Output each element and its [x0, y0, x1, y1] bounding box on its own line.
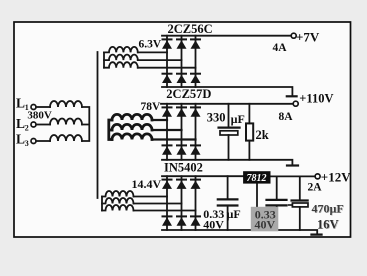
capacitor C1 330uF bottom lead	[228, 135, 230, 160]
capacitor C3 0.33uF plates	[267, 200, 287, 206]
wire primary common bus	[82, 107, 89, 141]
bridge 1 bottom bus	[162, 87, 292, 95]
wire 78V phase b to bridge	[152, 129, 182, 131]
diodes: bridge 1 (2CZ56C)	[162, 39, 202, 225]
svg-text:IN5402: IN5402	[164, 160, 203, 174]
diode D7	[162, 107, 173, 116]
svg-text:2k: 2k	[256, 128, 269, 142]
wire 6.3V phase a to bridge	[138, 51, 167, 53]
capacitor C1 330uF bottom plate	[220, 131, 238, 135]
diode D12	[190, 145, 201, 154]
transformer secondary 78V winding c	[112, 134, 152, 140]
diode D6	[190, 74, 201, 83]
regulator U1 7812 ground pin	[256, 184, 258, 230]
capacitor C4 470uF top lead	[299, 176, 301, 199]
wire 14.4V phase b to bridge	[134, 203, 182, 205]
bridge 2 column 3	[195, 104, 197, 160]
transformer secondary 6.3V winding c	[104, 62, 138, 68]
transformer T1 primary winding 1	[50, 101, 82, 107]
svg-text:4A: 4A	[273, 42, 288, 54]
svg-text:6.3V: 6.3V	[139, 38, 162, 50]
node +12V terminal	[315, 174, 320, 179]
wire 6.3V bus	[103, 52, 105, 67]
transformer secondary 6.3V winding b	[104, 55, 138, 61]
transformer secondary 14.4V winding b	[102, 198, 134, 204]
resistor R1 2k top lead	[248, 104, 250, 124]
svg-text:L: L	[16, 132, 25, 147]
node L2 terminal	[31, 122, 36, 127]
capacitor C2 0.33uF plates	[218, 199, 238, 205]
ground bar	[312, 233, 322, 235]
bridge 1 column 1	[166, 36, 168, 87]
wire 14.4V phase c to bridge	[134, 210, 196, 212]
diode D11	[176, 145, 187, 154]
bridge 3 column 1	[166, 176, 168, 230]
svg-text:14.4V: 14.4V	[132, 177, 162, 191]
svg-text:+110V: +110V	[299, 92, 333, 106]
diode D15	[190, 180, 201, 189]
diode D14	[176, 180, 187, 189]
wire 14.4V bus	[101, 197, 103, 211]
svg-text:2CZ56C: 2CZ56C	[168, 22, 213, 36]
diode D9	[190, 107, 201, 116]
capacitor C4 470uF positive plate	[292, 199, 308, 201]
resistor R1 2k body	[246, 123, 253, 140]
transformer T1 primary winding 3	[50, 135, 82, 141]
svg-text:L: L	[16, 116, 25, 131]
transformer secondary 78V winding a	[112, 114, 152, 120]
capacitor C2 0.33uF bottom lead	[227, 207, 229, 231]
wire 6.3V phase c to bridge	[138, 67, 196, 69]
bridge 3 top bus (+12V rail)	[162, 175, 243, 177]
capacitor C4 470uF negative plate	[292, 203, 308, 207]
capacitor C3 0.33uF bottom lead	[276, 206, 278, 230]
svg-text:L: L	[16, 96, 25, 111]
transformer secondary 78V winding b	[112, 124, 152, 130]
bridge 3 column 3	[195, 176, 197, 230]
capacitor C4 470uF bottom lead	[299, 207, 301, 230]
capacitor C1 330uF top lead	[228, 104, 230, 127]
bridge 3 column 2	[181, 176, 183, 230]
diode D10	[162, 145, 173, 154]
diode D5	[176, 74, 187, 83]
wire L3 to primary	[36, 140, 50, 142]
resistor R1 2k bottom lead	[248, 141, 250, 160]
capacitor C2 0.33uF top lead	[227, 176, 229, 198]
node L3 terminal	[31, 139, 36, 144]
node L1 terminal	[31, 105, 36, 110]
diode D3	[190, 39, 201, 48]
switch blade S1	[287, 95, 297, 97]
svg-text:+12V: +12V	[321, 169, 351, 184]
svg-text:7812: 7812	[247, 173, 267, 184]
transformer secondary 14.4V winding c	[102, 205, 134, 211]
diode D4	[162, 74, 173, 83]
svg-text:µF: µF	[227, 207, 241, 221]
wire L2 to primary	[36, 124, 50, 126]
diode D17	[176, 216, 187, 225]
svg-text:µF: µF	[231, 112, 245, 126]
svg-text:2CZ57D: 2CZ57D	[166, 87, 211, 101]
svg-text:3: 3	[25, 139, 29, 148]
svg-text:78V: 78V	[141, 101, 162, 113]
bridge 1 column 2	[181, 36, 183, 87]
svg-text:40V: 40V	[203, 217, 224, 231]
capacitor C1 330uF top plate	[219, 126, 240, 128]
capacitor C3 0.33uF top lead	[276, 176, 278, 199]
transformer core	[97, 52, 99, 198]
switch blade S2	[287, 164, 298, 166]
wire 78V bus	[109, 120, 112, 140]
diode D1	[162, 39, 173, 48]
svg-text:40V: 40V	[255, 218, 276, 232]
svg-text:380V: 380V	[27, 110, 52, 122]
regulator U1 7812 body	[243, 171, 270, 183]
svg-text:+7V: +7V	[296, 30, 320, 45]
svg-text:470µF: 470µF	[312, 201, 344, 215]
diode D8	[176, 107, 187, 116]
node +7V terminal	[291, 33, 296, 38]
wire 6.3V phase b to bridge	[138, 59, 182, 61]
diode D18	[190, 216, 201, 225]
svg-text:16V: 16V	[317, 218, 339, 232]
transformer T1 primary winding 2	[50, 119, 82, 125]
node +110V terminal	[293, 101, 298, 106]
wire 78V phase a to bridge	[152, 119, 167, 121]
transformer secondary 6.3V winding a	[104, 47, 138, 53]
wire L1 to primary	[36, 106, 50, 108]
bridge 2 column 1	[166, 104, 168, 160]
bridge 1 top bus (+7V rail)	[162, 35, 291, 37]
wire 7812 output to +12V	[271, 175, 316, 177]
diode D13	[162, 180, 173, 189]
bridge 2 top bus (+110V rail)	[161, 103, 293, 105]
svg-text:8A: 8A	[279, 111, 294, 123]
capacitor C4 polarity mark	[289, 204, 293, 206]
bridge 3 bottom bus / common rail	[162, 230, 317, 234]
diode D2	[176, 39, 187, 48]
bridge 2 bottom bus	[162, 160, 292, 165]
svg-text:2A: 2A	[308, 182, 323, 194]
svg-text:330: 330	[207, 111, 226, 125]
bridge 1 column 3	[195, 36, 197, 87]
bridge 2 column 2	[181, 104, 183, 160]
svg-text:2: 2	[25, 124, 29, 133]
transformer secondary 14.4V winding a	[102, 191, 134, 197]
wire 14.4V phase a to bridge	[134, 196, 168, 198]
wire 78V phase c to bridge	[152, 138, 196, 140]
schematic frame	[14, 22, 351, 237]
label 0.33 of C3 (faded)	[251, 207, 278, 232]
diode D16	[162, 216, 173, 225]
